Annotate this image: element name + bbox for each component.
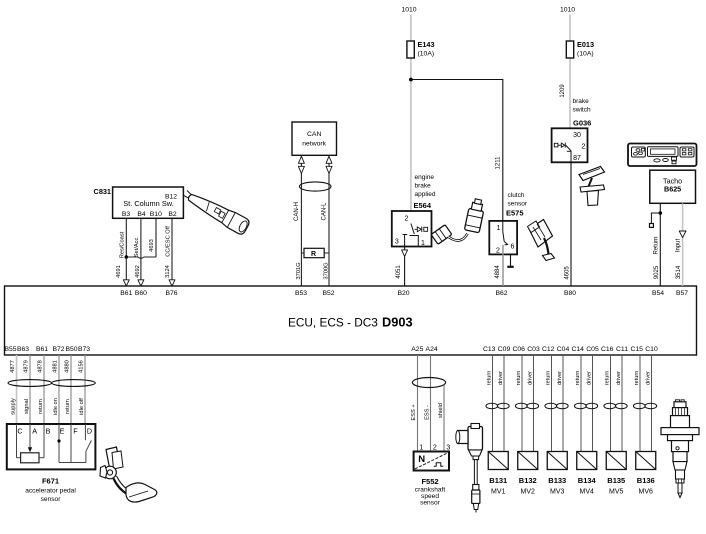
sensor F671 accelerator pedal sensor box <box>7 424 96 469</box>
svg-text:driver: driver <box>557 371 563 385</box>
wire return C-pin to B133 <box>551 355 553 452</box>
svg-text:B60: B60 <box>135 290 147 297</box>
twisted pair symbols <box>486 403 498 408</box>
svg-text:B20: B20 <box>397 290 409 297</box>
svg-text:CAN-L: CAN-L <box>321 202 327 221</box>
svg-text:Res/Coast: Res/Coast <box>119 231 125 258</box>
switch contact inside E564 <box>411 224 414 235</box>
clutch pedal illustration <box>528 220 555 261</box>
svg-text:shield: shield <box>438 403 444 418</box>
svg-text:B50: B50 <box>65 346 77 353</box>
svg-text:B62: B62 <box>495 290 507 297</box>
svg-text:4884: 4884 <box>495 265 501 279</box>
switch C831 St. Column Sw. box <box>113 187 184 218</box>
svg-text:6: 6 <box>511 244 515 251</box>
svg-text:driver: driver <box>586 371 592 385</box>
svg-text:B135: B135 <box>607 476 625 485</box>
wire return C-pin to B132 <box>521 355 523 452</box>
junction node <box>409 78 413 82</box>
svg-text:(10A): (10A) <box>577 51 594 58</box>
svg-text:MV1: MV1 <box>491 489 506 496</box>
svg-text:C12: C12 <box>542 346 555 353</box>
svg-text:brake: brake <box>573 98 590 105</box>
accelerator pedal illustration <box>100 447 157 502</box>
diagonal divider <box>415 453 448 469</box>
switch contact inside G036 <box>566 145 571 151</box>
svg-text:F: F <box>73 427 78 436</box>
svg-text:N: N <box>418 454 425 465</box>
svg-text:B2: B2 <box>168 211 177 218</box>
svg-text:ESS +: ESS + <box>411 404 417 421</box>
terminating resistor R <box>301 252 304 254</box>
CAN network box <box>292 122 337 155</box>
svg-text:CC/ESC Off: CC/ESC Off <box>165 226 171 257</box>
svg-text:C15: C15 <box>630 346 643 353</box>
svg-text:D903: D903 <box>382 315 413 330</box>
svg-text:4605: 4605 <box>565 266 571 280</box>
svg-text:4878: 4878 <box>38 360 44 373</box>
fuse E013 <box>566 41 573 58</box>
svg-text:accelerator pedal: accelerator pedal <box>25 487 76 494</box>
svg-text:return: return <box>516 371 522 386</box>
wire driver C-pin to B134 <box>592 355 594 452</box>
svg-text:B57: B57 <box>676 290 688 297</box>
svg-text:B: B <box>46 427 51 436</box>
svg-text:B3: B3 <box>122 211 131 218</box>
svg-text:4879: 4879 <box>24 360 30 373</box>
sensor plug with cable illustration (E564) <box>431 198 486 244</box>
wire 4884 to B62 <box>502 245 504 286</box>
wiper arrow <box>29 424 31 448</box>
svg-text:2: 2 <box>582 144 586 151</box>
svg-text:Set/Acc: Set/Acc <box>134 238 140 258</box>
wire Input (3514) to B57 <box>682 203 684 286</box>
switch E575 clutch sensor box <box>489 221 517 255</box>
svg-text:3124: 3124 <box>165 265 171 278</box>
svg-text:B132: B132 <box>519 476 537 485</box>
wire B4 to B60 (Set/Acc 4692) <box>140 219 142 281</box>
wire B3 to B61 (Res/Coast 4691) <box>125 219 127 281</box>
svg-text:brake: brake <box>415 182 432 189</box>
svg-text:sensor: sensor <box>420 500 441 507</box>
svg-text:A24: A24 <box>426 346 438 353</box>
svg-text:3: 3 <box>446 444 450 451</box>
fuel injector illustration <box>661 400 699 498</box>
svg-text:87: 87 <box>573 155 581 162</box>
svg-text:A: A <box>32 427 37 436</box>
svg-text:4881: 4881 <box>53 360 59 373</box>
svg-text:B133: B133 <box>548 476 566 485</box>
twisted pair symbol <box>412 378 445 388</box>
svg-text:4691: 4691 <box>116 265 122 278</box>
svg-text:St. Column Sw.: St. Column Sw. <box>123 199 174 208</box>
svg-text:driver: driver <box>527 371 533 385</box>
twisted pair symbol (E-F-D) <box>52 380 96 387</box>
solenoid valve B133 box <box>547 452 567 470</box>
svg-text:C11: C11 <box>616 346 628 353</box>
twisted pair symbols <box>545 403 557 408</box>
svg-text:C10: C10 <box>645 346 658 353</box>
solenoid valve B136 box <box>636 452 656 470</box>
wire driver C-pin to B132 <box>533 355 535 452</box>
svg-text:B72: B72 <box>52 346 64 353</box>
wire driver C-pin to B135 <box>621 355 623 452</box>
connector arrow at B60 <box>138 280 144 286</box>
wire branch to E575 pin 1 (1211) <box>411 80 503 221</box>
wire return C-pin to B131 <box>492 355 494 452</box>
actuator symbol <box>415 228 418 230</box>
svg-text:B134: B134 <box>578 476 597 485</box>
svg-text:CAN-H: CAN-H <box>294 202 300 221</box>
switch contact inside E575 <box>502 221 504 232</box>
wire CAN-H (3701G) <box>300 155 302 286</box>
svg-text:E575: E575 <box>506 209 524 218</box>
svg-text:C06: C06 <box>512 346 525 353</box>
svg-text:2: 2 <box>433 444 437 451</box>
twisted pair symbol (C-A-B) <box>8 380 52 387</box>
twisted pair symbols <box>633 403 645 408</box>
svg-text:B10: B10 <box>150 211 162 218</box>
svg-text:driver: driver <box>645 371 651 385</box>
svg-text:B4: B4 <box>137 211 146 218</box>
svg-text:C16: C16 <box>601 346 614 353</box>
svg-text:C13: C13 <box>483 346 496 353</box>
pulse symbol <box>434 463 443 467</box>
svg-text:1209: 1209 <box>560 84 566 98</box>
svg-text:E013: E013 <box>577 40 594 49</box>
svg-text:MV6: MV6 <box>639 489 654 496</box>
svg-text:2: 2 <box>405 216 409 223</box>
solenoid valve B135 box <box>606 452 626 470</box>
shield wire <box>443 385 445 452</box>
junction node <box>659 211 663 215</box>
svg-text:4692: 4692 <box>135 265 141 278</box>
Tacho B625 box <box>650 170 696 203</box>
svg-text:MV3: MV3 <box>550 489 565 496</box>
svg-text:B55: B55 <box>4 346 16 353</box>
plunger actuator inside G036 <box>554 143 558 147</box>
wire Return (9025) to B54 <box>659 203 661 286</box>
svg-text:G036: G036 <box>573 119 591 128</box>
wire driver C-pin to B131 <box>503 355 505 452</box>
svg-text:B54: B54 <box>652 290 664 297</box>
svg-text:1211: 1211 <box>496 156 502 170</box>
svg-text:3701G: 3701G <box>296 262 302 279</box>
svg-text:ECU, ECS - DC3: ECU, ECS - DC3 <box>288 316 378 330</box>
svg-text:sensor: sensor <box>41 496 62 503</box>
wire B10 (4693) joining node <box>155 219 157 257</box>
svg-text:return: return <box>486 371 492 386</box>
supply wire 1010 through fuse E013 to G036 <box>569 15 571 42</box>
sensor F552 crankshaft speed sensor box <box>414 452 449 471</box>
svg-text:return: return <box>604 371 610 386</box>
wire B2 to B76 (CC/ESC Off 3124) <box>171 219 173 281</box>
tachograph head unit illustration <box>628 144 697 167</box>
svg-text:Input: Input <box>676 239 682 253</box>
svg-text:engine: engine <box>415 174 435 181</box>
bidirectional arrows CAN-L <box>326 156 332 163</box>
wire CAN-L (3700G) <box>328 155 330 286</box>
idle switch rail <box>59 462 86 464</box>
svg-text:4880: 4880 <box>65 360 71 373</box>
svg-text:return: return <box>575 371 581 386</box>
twisted pair symbols <box>515 403 527 408</box>
wire driver C-pin to B133 <box>562 355 564 452</box>
svg-text:clutch: clutch <box>508 192 525 199</box>
svg-text:applied: applied <box>415 191 436 198</box>
svg-text:C: C <box>17 427 22 436</box>
svg-text:C03: C03 <box>527 346 540 353</box>
svg-text:1: 1 <box>497 225 501 232</box>
idle switch common wire <box>58 424 60 463</box>
svg-text:E: E <box>60 427 65 436</box>
bidirectional arrows CAN-H <box>298 156 304 163</box>
svg-text:3514: 3514 <box>676 265 682 279</box>
svg-text:B63: B63 <box>17 346 29 353</box>
supply wire 1010 through fuse E143 to E564 pin 2 <box>410 15 412 42</box>
svg-text:idle off: idle off <box>79 398 85 415</box>
svg-text:driver: driver <box>498 371 504 385</box>
svg-text:F671: F671 <box>42 476 59 485</box>
svg-text:ESS -: ESS - <box>424 405 430 420</box>
connector arrow at B61 <box>123 280 129 286</box>
svg-text:MV2: MV2 <box>521 489 536 496</box>
svg-text:CAN: CAN <box>307 131 321 138</box>
svg-text:4156: 4156 <box>79 360 85 373</box>
solenoid valve B132 box <box>518 452 538 470</box>
wire 4880 from band to F671 <box>70 355 72 424</box>
svg-text:MV4: MV4 <box>580 489 595 496</box>
svg-text:C831: C831 <box>94 187 111 196</box>
svg-text:4877: 4877 <box>10 360 16 373</box>
svg-text:F552: F552 <box>421 477 438 486</box>
wire 4879 from band to F671 <box>29 355 31 424</box>
switch E564 engine brake applied box <box>392 211 432 247</box>
brake pedal illustration <box>579 167 605 206</box>
junction node <box>57 439 60 442</box>
svg-text:C04: C04 <box>557 346 570 353</box>
svg-text:B61: B61 <box>36 346 48 353</box>
svg-text:idle on: idle on <box>53 398 59 415</box>
svg-text:B53: B53 <box>295 290 307 297</box>
signal direction arrow <box>679 231 686 238</box>
svg-text:R: R <box>311 251 316 258</box>
svg-text:B52: B52 <box>322 290 334 297</box>
svg-text:switch: switch <box>573 106 591 113</box>
wire return C-pin to B136 <box>639 355 641 452</box>
steering column stalk switch illustration <box>180 187 251 236</box>
svg-text:1010: 1010 <box>560 7 575 14</box>
svg-text:supply: supply <box>10 398 16 415</box>
solenoid valve B131 box <box>488 452 508 470</box>
svg-text:return: return <box>65 399 71 414</box>
svg-text:C09: C09 <box>498 346 511 353</box>
svg-text:MV5: MV5 <box>609 489 624 496</box>
wire 4878 from band to F671 <box>43 355 45 424</box>
crankshaft sensor illustration <box>456 424 483 513</box>
svg-text:1: 1 <box>419 444 423 451</box>
switch G036 brake switch box <box>552 128 588 162</box>
fuse E143 <box>407 41 414 58</box>
wire 4881 from band to F671 <box>58 355 60 424</box>
svg-text:2: 2 <box>496 248 500 255</box>
svg-text:4051: 4051 <box>396 265 402 279</box>
svg-text:B131: B131 <box>489 476 507 485</box>
svg-text:B76: B76 <box>165 290 177 297</box>
svg-text:network: network <box>302 141 326 148</box>
wire ESS + (A25) <box>417 355 419 452</box>
pin 6 termination stub <box>510 254 512 266</box>
svg-text:1010: 1010 <box>401 7 416 14</box>
svg-text:3: 3 <box>395 239 399 246</box>
wire 4156 from band to F671 <box>84 355 86 424</box>
idle switch lever <box>86 440 92 451</box>
svg-text:(10A): (10A) <box>418 51 435 58</box>
svg-text:30: 30 <box>573 132 581 139</box>
solenoid valve B134 box <box>577 452 597 470</box>
twisted pair symbols <box>574 403 586 408</box>
svg-text:B73: B73 <box>78 346 90 353</box>
svg-text:B136: B136 <box>637 476 655 485</box>
potentiometer track <box>16 424 18 458</box>
svg-text:B80: B80 <box>564 290 576 297</box>
svg-text:return: return <box>38 399 44 414</box>
wire 4605 to B80 <box>570 162 572 286</box>
svg-text:E564: E564 <box>414 201 432 210</box>
svg-text:return: return <box>545 371 551 386</box>
svg-text:1: 1 <box>421 240 425 247</box>
junction node on Res/Coast wire <box>125 255 129 259</box>
wire 4877 from band to F671 <box>16 355 18 424</box>
wire return C-pin to B135 <box>610 355 612 452</box>
wire ESS - (A24) <box>430 355 432 452</box>
svg-text:C14: C14 <box>571 346 584 353</box>
svg-text:driver: driver <box>616 371 622 385</box>
twisted pair symbols <box>604 403 616 408</box>
svg-text:4693: 4693 <box>149 239 155 252</box>
pin 3 conductor <box>403 234 408 236</box>
svg-text:Return: Return <box>654 236 660 254</box>
svg-text:B61: B61 <box>120 290 132 297</box>
wire driver C-pin to B136 <box>651 355 653 452</box>
wire 4051 to B20 with arrow <box>404 247 406 251</box>
svg-text:sensor: sensor <box>508 200 528 207</box>
connector arrow at B76 <box>169 280 175 286</box>
svg-text:C05: C05 <box>586 346 599 353</box>
twisted pair symbol <box>299 182 331 191</box>
svg-text:3700G: 3700G <box>323 262 329 279</box>
svg-text:A25: A25 <box>411 346 423 353</box>
wire return C-pin to B134 <box>580 355 582 452</box>
svg-text:signal: signal <box>24 399 30 414</box>
svg-text:D: D <box>87 427 92 436</box>
svg-text:B625: B625 <box>664 184 681 193</box>
stub to screen terminal <box>651 213 660 224</box>
svg-text:9025: 9025 <box>654 265 660 279</box>
svg-text:E143: E143 <box>418 40 435 49</box>
svg-text:return: return <box>634 371 640 386</box>
ECU, ECS - DC3 D903 controller band <box>5 286 697 355</box>
